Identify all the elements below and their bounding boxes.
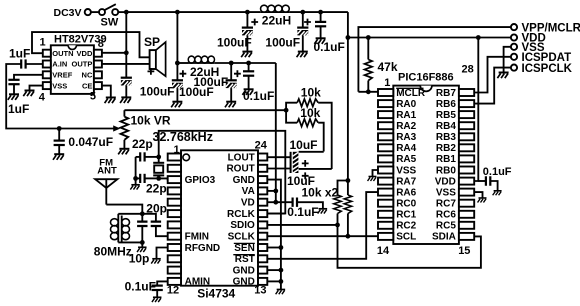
svg-text:RB4: RB4 bbox=[436, 121, 456, 132]
wire AMIN to cap bbox=[157, 281, 168, 285]
wire tank to ground bbox=[141, 242, 143, 247]
pin 18 U3 box RC7 bbox=[459, 200, 474, 207]
ground CE bbox=[105, 98, 116, 104]
wire C7 upper lead bbox=[176, 63, 178, 80]
wire SW to rail bbox=[118, 11, 126, 13]
svg-text:RA4: RA4 bbox=[396, 143, 416, 154]
terminal VPP/MCLR bbox=[511, 24, 517, 30]
wire VREF lead bbox=[14, 75, 43, 80]
plus C8 bbox=[234, 70, 241, 77]
wire C17 out to R2 bbox=[299, 168, 332, 170]
terminal VSS bbox=[511, 44, 517, 50]
pin U2 left box row 9 bbox=[168, 244, 181, 251]
svg-text:SEN: SEN bbox=[234, 243, 255, 254]
pin 26 U3 box RB5 bbox=[459, 111, 474, 118]
wire A.IN cap right bbox=[26, 63, 43, 65]
svg-text:0.1uF: 0.1uF bbox=[287, 205, 318, 219]
pin U2 left box row 6 bbox=[168, 210, 181, 217]
pin 10 U3 box RA6 bbox=[378, 189, 393, 196]
svg-text:4: 4 bbox=[39, 91, 46, 103]
node 47k top bbox=[366, 35, 371, 40]
svg-text:RFGND: RFGND bbox=[185, 243, 221, 254]
wire C12 right to GPIO3 bbox=[145, 177, 159, 179]
pin U2 left box row 7 bbox=[168, 221, 181, 228]
ground VR bbox=[118, 149, 129, 155]
wire VA to supply bbox=[267, 190, 276, 192]
wire DC3V to SW bbox=[91, 11, 99, 13]
terminal ICSPCLK bbox=[511, 65, 517, 71]
wire GND11 to bus bbox=[267, 269, 281, 271]
capacitor C11 22p top bbox=[140, 152, 144, 161]
switch SW bbox=[99, 4, 118, 15]
pin 22 U3 box RB1 bbox=[459, 155, 474, 162]
svg-text:RB7: RB7 bbox=[436, 88, 456, 99]
ground C15 bbox=[152, 297, 162, 302]
svg-text:RC0: RC0 bbox=[396, 199, 416, 210]
pin 1 U1 box bbox=[43, 50, 51, 57]
node MCLR 47k bbox=[366, 89, 371, 94]
node mixer A bbox=[284, 108, 289, 113]
ground VSS U1 bbox=[23, 91, 34, 97]
pin U2 left box row 8 bbox=[168, 233, 181, 240]
pin U2 right box GND bbox=[258, 176, 267, 183]
ground 22p bbox=[130, 185, 140, 190]
pin U2 left box row 11 bbox=[168, 267, 181, 274]
capacitor C4 100uF bbox=[242, 28, 253, 36]
svg-text:13: 13 bbox=[254, 284, 266, 296]
wire OUTP to speaker bbox=[102, 63, 150, 65]
wire LOUT to cap bbox=[267, 157, 290, 168]
wire VA VD supply vertical bbox=[275, 63, 277, 202]
svg-text:10k: 10k bbox=[301, 85, 321, 99]
svg-text:VDD: VDD bbox=[435, 176, 456, 187]
pin U2 right box VA bbox=[258, 187, 267, 194]
svg-text:PIC16F886: PIC16F886 bbox=[398, 72, 454, 84]
node crystal top bbox=[156, 155, 161, 160]
svg-text:100uF: 100uF bbox=[194, 75, 229, 89]
svg-text:VA: VA bbox=[242, 186, 255, 197]
wire C10 to ground bbox=[58, 145, 60, 154]
wire C8 to ground bbox=[230, 88, 232, 102]
ground VSS terminal bbox=[497, 73, 508, 79]
svg-text:80MHz: 80MHz bbox=[94, 245, 132, 259]
pin 19 U3 box VSS bbox=[459, 189, 474, 196]
wire C12 left bbox=[136, 177, 141, 179]
node SW junction bbox=[124, 10, 129, 15]
pin 12 U3 box RC1 bbox=[378, 211, 393, 218]
pin 25 U3 box RB4 bbox=[459, 122, 474, 129]
wire VDD vertical to pullups bbox=[347, 38, 349, 196]
wire C9 upper lead bbox=[248, 63, 250, 71]
terminal DC3V bbox=[85, 9, 91, 15]
ground C10 bbox=[53, 154, 64, 160]
ground C3 bbox=[120, 97, 131, 103]
capacitor C14 20p to FMIN bbox=[142, 214, 167, 236]
pin 7 U3 box RA5 bbox=[378, 155, 393, 162]
capacitor C5 100uF bbox=[297, 28, 308, 36]
svg-text:RB5: RB5 bbox=[436, 110, 456, 121]
node VDD rail start bbox=[346, 35, 351, 40]
wire C11 left bbox=[136, 156, 141, 158]
svg-text:24: 24 bbox=[255, 139, 268, 151]
wire C11 right bbox=[145, 156, 159, 158]
wire rail corner down bbox=[347, 12, 349, 37]
wire LC2 left stub bbox=[177, 62, 188, 64]
wire VSS terminal to ground bbox=[504, 47, 511, 73]
wire rail drop to LC2 bbox=[176, 12, 178, 63]
terminal VDD bbox=[511, 34, 517, 40]
svg-text:28: 28 bbox=[462, 64, 474, 76]
pin U2 left box row 3 bbox=[168, 176, 181, 183]
pin 16 U3 box RC5 bbox=[459, 222, 474, 229]
wire VD to supply bbox=[267, 201, 276, 203]
svg-text:CE: CE bbox=[82, 81, 92, 90]
wire GND3 to bus bbox=[267, 180, 281, 290]
wire SW down to HT VDD bbox=[125, 12, 127, 53]
pin U2 right box LOUT bbox=[258, 154, 267, 161]
svg-text:100uF: 100uF bbox=[265, 35, 300, 49]
svg-text:0.1uF: 0.1uF bbox=[125, 280, 156, 294]
svg-text:RA6: RA6 bbox=[396, 187, 416, 198]
node crystal bottom bbox=[156, 176, 161, 181]
capacitor C9 0.1uF bbox=[243, 71, 254, 75]
svg-text:RB1: RB1 bbox=[436, 154, 456, 165]
pin 20 U3 box VDD bbox=[459, 178, 474, 185]
wire C5 to ground bbox=[302, 35, 304, 51]
wire ICSPCLK to RB6 bbox=[474, 68, 511, 104]
capacitor C19 0.1uF PIC VDD bbox=[478, 176, 497, 191]
svg-text:Si4734: Si4734 bbox=[197, 286, 235, 300]
pin U2 right box SCLK bbox=[258, 233, 267, 240]
notch U1 bbox=[68, 45, 76, 49]
svg-text:10uF: 10uF bbox=[290, 138, 318, 152]
node GND12 bus bbox=[279, 279, 284, 284]
wire antenna to tank bbox=[106, 205, 142, 214]
wire VREF cap to ground bbox=[13, 84, 15, 94]
capacitor C2 1uF VREF bbox=[8, 80, 19, 84]
pin 21 U3 box RB0 bbox=[459, 167, 474, 174]
svg-text:12: 12 bbox=[167, 284, 179, 296]
pin 9 U3 box RA7 bbox=[378, 178, 393, 185]
wire rail after L1 bbox=[289, 11, 348, 13]
svg-text:10k VR: 10k VR bbox=[131, 113, 171, 127]
wire C6 upper lead bbox=[320, 12, 322, 22]
svg-text:RCLK: RCLK bbox=[227, 209, 256, 220]
svg-text:NC: NC bbox=[82, 71, 93, 80]
svg-text:SW: SW bbox=[101, 16, 119, 28]
ground C5 bbox=[297, 52, 308, 58]
svg-text:1uF: 1uF bbox=[8, 102, 29, 116]
svg-text:0.1uF: 0.1uF bbox=[243, 89, 274, 103]
svg-text:RB6: RB6 bbox=[436, 99, 456, 110]
svg-text:A.IN: A.IN bbox=[52, 60, 67, 69]
ground C19 bbox=[493, 191, 502, 195]
overline SEN bbox=[234, 242, 255, 244]
capacitor C6 0.1uF bbox=[315, 22, 326, 26]
wire top rail bbox=[126, 11, 260, 13]
svg-text:0.1uF: 0.1uF bbox=[314, 40, 345, 54]
pin 5 U1 box bbox=[94, 82, 102, 89]
wire PIC VSS left ground bbox=[373, 170, 379, 177]
pin U2 right box VD bbox=[258, 199, 267, 206]
svg-text:MCLR: MCLR bbox=[396, 88, 426, 99]
svg-text:VSS: VSS bbox=[396, 165, 416, 176]
svg-text:47k: 47k bbox=[378, 60, 398, 74]
overline MCLR bbox=[396, 87, 423, 89]
wire C15 to ground bbox=[156, 290, 158, 297]
svg-text:SCLK: SCLK bbox=[228, 232, 256, 243]
pin 28 U3 box RB7 bbox=[459, 89, 474, 96]
svg-text:FMIN: FMIN bbox=[185, 232, 209, 243]
pin U2 right box RST bbox=[258, 255, 267, 262]
svg-text:RST: RST bbox=[235, 254, 255, 265]
capacitor C15 0.1uF AMIN bbox=[152, 286, 163, 290]
pin 23 U3 box RB2 bbox=[459, 144, 474, 151]
wire PIC VSS right ground bbox=[474, 192, 482, 198]
wire RST to RA6 bbox=[267, 192, 378, 259]
svg-text:SDIA: SDIA bbox=[432, 232, 456, 243]
potentiometer VR 10k bbox=[59, 110, 128, 149]
inductor L2 22uH bbox=[188, 56, 215, 63]
svg-text:100uF: 100uF bbox=[217, 35, 252, 49]
antenna FM bbox=[95, 179, 117, 204]
svg-text:RC6: RC6 bbox=[436, 210, 456, 221]
svg-text:OUTN: OUTN bbox=[52, 49, 73, 58]
svg-text:0.1uF: 0.1uF bbox=[483, 166, 512, 178]
node rail cap2 bbox=[300, 10, 305, 15]
wire 22p common to ground bbox=[135, 178, 137, 184]
capacitor C1 1uF A.IN bbox=[21, 59, 25, 68]
capacitor C12 22p bottom bbox=[140, 174, 144, 183]
pin 17 U3 box RC6 bbox=[459, 211, 474, 218]
wire C4 upper lead bbox=[246, 12, 248, 28]
svg-text:10k: 10k bbox=[300, 106, 320, 120]
wire C4 to ground bbox=[246, 35, 248, 51]
svg-text:1: 1 bbox=[40, 37, 46, 49]
wire crystal to GPIO3 bbox=[159, 178, 170, 179]
wire tank top to coils bbox=[118, 213, 142, 215]
wire VDD pin to SW line bbox=[102, 52, 126, 54]
svg-text:ROUT: ROUT bbox=[226, 164, 254, 175]
svg-text:RA1: RA1 bbox=[396, 110, 416, 121]
node VA bbox=[273, 189, 278, 194]
IC U3 PIC16F886 body bbox=[393, 86, 459, 244]
ground RFGND bbox=[151, 259, 161, 264]
wire volume node to mixer node bbox=[124, 109, 286, 111]
resistor R2 10k upper bbox=[286, 99, 332, 169]
capacitor C16 C17 10uF pair hatch bbox=[291, 152, 299, 174]
svg-text:VD: VD bbox=[241, 198, 255, 209]
svg-text:GND: GND bbox=[233, 277, 255, 288]
svg-text:RA2: RA2 bbox=[396, 121, 416, 132]
svg-text:ICSPCLK: ICSPCLK bbox=[522, 63, 573, 75]
crystal X1 32.768kHz bbox=[153, 157, 164, 179]
svg-text:VSS: VSS bbox=[52, 81, 67, 90]
node VDD junction bbox=[124, 50, 129, 55]
wire ICSPDAT to RB7 bbox=[474, 57, 511, 93]
wire CE to ground bbox=[102, 86, 111, 98]
ground PIC VSS left bbox=[368, 177, 377, 181]
svg-text:RA0: RA0 bbox=[396, 99, 416, 110]
overline RST bbox=[233, 254, 255, 256]
node SCLK pullup bbox=[346, 234, 351, 239]
node GND11 bus bbox=[279, 268, 284, 273]
pin 6 U3 box RA4 bbox=[378, 144, 393, 151]
ground tank bbox=[137, 247, 147, 252]
wire tank bottom bbox=[118, 241, 142, 243]
svg-text:ANT: ANT bbox=[97, 166, 117, 177]
pin U2 right box SDIO bbox=[258, 221, 267, 228]
pin U2 left box row 2 bbox=[168, 165, 181, 172]
pin 11 U3 box RC0 bbox=[378, 200, 393, 207]
svg-text:VSS: VSS bbox=[436, 187, 456, 198]
svg-text:SP: SP bbox=[144, 35, 160, 49]
svg-text:GND: GND bbox=[233, 265, 255, 276]
svg-text:LOUT: LOUT bbox=[228, 152, 255, 163]
node LC2 cap C bbox=[246, 61, 251, 66]
svg-text:RC2: RC2 bbox=[396, 221, 416, 232]
pin 7 U1 box bbox=[94, 61, 102, 68]
svg-text:10p: 10p bbox=[129, 251, 150, 265]
pin 2 U3 box RA0 bbox=[378, 100, 393, 107]
pin 14 U3 box SCL bbox=[378, 233, 393, 240]
ground C18 bbox=[318, 209, 328, 214]
ground C9 bbox=[242, 89, 253, 95]
wire crystal net top bbox=[159, 131, 286, 214]
ground C8 bbox=[225, 102, 236, 108]
resistor R1 47k bbox=[365, 38, 373, 92]
pin U2 left box row 4 bbox=[168, 187, 181, 194]
wire SEN to bus bbox=[267, 247, 281, 249]
svg-text:10k x2: 10k x2 bbox=[302, 185, 339, 199]
svg-text:22uH: 22uH bbox=[262, 14, 291, 28]
pin 13 U3 box RC2 bbox=[378, 222, 393, 229]
resistor R3 10k lower bbox=[286, 110, 324, 151]
wire VDD down to cap bbox=[125, 53, 127, 78]
svg-text:RB0: RB0 bbox=[436, 165, 456, 176]
plus C4 bbox=[251, 19, 258, 26]
plus C16 bbox=[302, 160, 309, 167]
pin 8 U3 box VSS bbox=[378, 167, 393, 174]
wire LC2 after inductor bbox=[215, 62, 276, 64]
resistor R4 10k SDIO pullup bbox=[334, 181, 348, 225]
pin U2 left box row 1 bbox=[168, 154, 181, 161]
wire C8 upper lead bbox=[230, 63, 232, 80]
svg-text:VDD: VDD bbox=[77, 49, 93, 58]
wire C10 upper lead bbox=[58, 129, 60, 141]
capacitor C18 0.1uF VD bbox=[276, 198, 323, 209]
wire C6 to ground bbox=[320, 26, 322, 38]
node rail to LC2 bbox=[175, 10, 180, 15]
wire SCLK to SCL bbox=[267, 235, 378, 237]
svg-text:RA3: RA3 bbox=[396, 132, 416, 143]
inductor L1 22uH bbox=[260, 5, 289, 12]
wire 22p common left bbox=[135, 157, 137, 179]
node rail cap1 bbox=[245, 10, 250, 15]
ground PIC VSS right bbox=[478, 198, 487, 202]
IC U2 Si4734 body bbox=[181, 150, 258, 285]
wire RCLK bbox=[267, 213, 285, 215]
capacitor C10 0.047uF bbox=[54, 141, 65, 145]
svg-text:22p: 22p bbox=[146, 182, 167, 196]
svg-text:RC5: RC5 bbox=[436, 221, 456, 232]
pin 24 U3 box RB3 bbox=[459, 133, 474, 140]
pin 2 U1 box bbox=[43, 61, 51, 68]
svg-text:1: 1 bbox=[384, 77, 390, 89]
svg-text:22p: 22p bbox=[132, 137, 153, 151]
svg-text:SDIO: SDIO bbox=[230, 220, 255, 231]
node LC2 cap B bbox=[229, 61, 234, 66]
wire VSS to ground bbox=[30, 86, 43, 91]
pin U2 right box ROUT bbox=[258, 165, 267, 172]
resistor R5 10k SCLK pullup bbox=[344, 195, 352, 236]
svg-text:100uF: 100uF bbox=[140, 85, 175, 99]
node volume cap bbox=[57, 126, 62, 131]
svg-text:SCL: SCL bbox=[396, 232, 416, 243]
ground bus bbox=[276, 290, 286, 295]
capacitor C13 10p bbox=[137, 214, 147, 243]
svg-text:RC7: RC7 bbox=[436, 199, 456, 210]
plus C3 bbox=[148, 68, 155, 75]
svg-text:RA5: RA5 bbox=[396, 154, 416, 165]
svg-text:OUTP: OUTP bbox=[72, 60, 93, 69]
wire A.IN cap left down to volume bbox=[6, 64, 59, 129]
pin U2 left box row 12 bbox=[168, 278, 181, 285]
svg-text:1uF: 1uF bbox=[9, 46, 30, 60]
speaker SP bbox=[150, 42, 166, 76]
node tank top bbox=[140, 211, 145, 216]
wire C3 to ground bbox=[125, 86, 127, 98]
svg-text:5: 5 bbox=[90, 91, 96, 103]
wire C7 to ground bbox=[176, 88, 178, 102]
svg-text:RB3: RB3 bbox=[436, 132, 456, 143]
wire C9 to ground bbox=[248, 76, 250, 90]
capacitor C7 100uF bbox=[172, 80, 183, 88]
ground C7 bbox=[171, 102, 182, 108]
svg-text:DC3V: DC3V bbox=[54, 7, 82, 19]
pin U2 right box GND bbox=[258, 278, 267, 285]
pin 3 U1 box bbox=[43, 71, 51, 78]
pin 27 U3 box RB6 bbox=[459, 100, 474, 107]
ground C6 bbox=[314, 38, 325, 44]
svg-text:GPIO3: GPIO3 bbox=[185, 175, 216, 186]
pin 4 U1 box bbox=[43, 82, 51, 89]
pin 1 U3 box MCLR bbox=[378, 89, 393, 96]
plus C7 bbox=[180, 70, 187, 77]
ground VREF bbox=[8, 94, 19, 100]
IC U1 HT82V739 body bbox=[51, 45, 94, 94]
svg-text:8: 8 bbox=[98, 38, 104, 50]
wire C16 out to R3 bbox=[299, 151, 324, 153]
svg-text:RC1: RC1 bbox=[396, 210, 416, 221]
wire GND12 to bus bbox=[267, 280, 281, 282]
pin U2 right box GND bbox=[258, 267, 267, 274]
node SDIO pullup bbox=[335, 223, 340, 228]
node pullup branch bbox=[346, 178, 351, 183]
pin 6 U1 box bbox=[94, 71, 102, 78]
pin U2 right box SEN bbox=[258, 244, 267, 251]
node rail cap3 bbox=[318, 10, 323, 15]
node VD bbox=[273, 200, 278, 205]
pin U2 left box row 10 bbox=[168, 255, 181, 262]
ground C4 bbox=[241, 52, 252, 58]
pin U2 left box row 5 bbox=[168, 199, 181, 206]
node VDD drop bbox=[476, 35, 481, 40]
pin U2 right box RCLK bbox=[258, 210, 267, 217]
pin 15 U3 box SDIA bbox=[459, 233, 474, 240]
node LC2 left bbox=[175, 61, 180, 66]
wire C5 upper lead bbox=[302, 12, 304, 28]
